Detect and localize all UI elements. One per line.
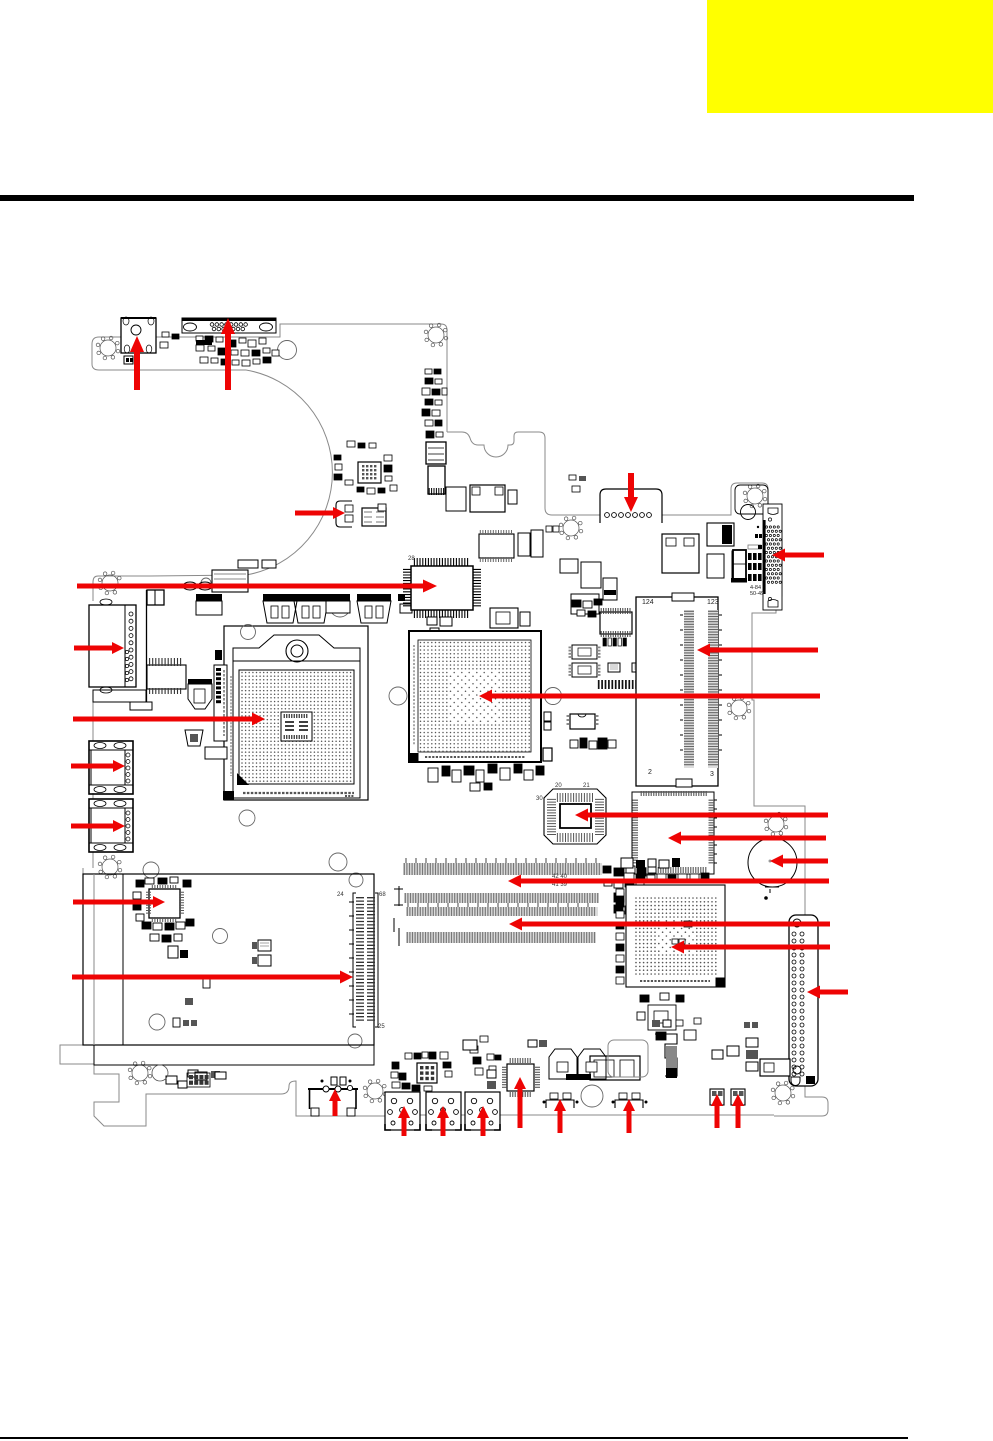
shield wall right of LAN xyxy=(146,590,148,702)
small parts upper right xyxy=(569,475,576,480)
CPU cavity bottom ticks xyxy=(284,735,307,739)
drill hole next to flower xyxy=(152,1065,168,1081)
CPU cavity mid marks xyxy=(285,722,308,730)
QFP left pins xyxy=(403,569,411,605)
right connector black mark xyxy=(806,1076,815,1084)
EC pins bottom xyxy=(643,867,706,873)
arrow to DIMM B xyxy=(509,918,830,931)
right edge connector outline xyxy=(789,915,818,1086)
arrow to dock connector xyxy=(697,644,818,657)
parts above rounded pad xyxy=(652,1020,660,1027)
arrow to mini-PCI connector xyxy=(72,971,353,984)
port pin holes xyxy=(210,323,214,327)
CPU socket outline xyxy=(224,626,368,800)
screw hole mid xyxy=(559,516,583,540)
component cluster below top port xyxy=(196,336,203,341)
docking connector body xyxy=(763,504,782,610)
cap below-left CPU xyxy=(205,747,227,759)
arrow to clock generator xyxy=(575,809,828,822)
battery tab xyxy=(765,887,779,893)
screw hole top-mid xyxy=(424,323,448,347)
mini-PCI pins right col xyxy=(367,898,375,1020)
arrow to right port xyxy=(772,549,824,562)
power mosfet 2 xyxy=(294,594,328,601)
parts right of DIMM slots xyxy=(614,868,624,876)
right connector top hole xyxy=(793,919,801,927)
comb connector body xyxy=(147,665,186,689)
chip bottom pins xyxy=(480,557,511,562)
QFP right pins xyxy=(473,569,481,605)
battery connector well xyxy=(600,489,662,523)
mini-PCI lower ledge xyxy=(94,1045,374,1065)
clock pins bottom xyxy=(557,833,592,842)
arrow to USB lower xyxy=(71,820,125,832)
clock pins top xyxy=(557,793,592,802)
mini-PCI connector rails xyxy=(353,893,378,1027)
mini-PCI pins left col xyxy=(356,898,364,1020)
connector small left xyxy=(336,501,352,527)
footer rule xyxy=(0,1437,908,1439)
arrow to WLAN chip xyxy=(73,896,165,908)
DIMM A top ticks xyxy=(406,858,596,863)
board outline circular cutout xyxy=(93,370,332,601)
SOIC chip 2 xyxy=(572,663,597,677)
parts above audio jack xyxy=(331,1077,337,1085)
arrow to USB upper xyxy=(71,760,125,772)
svg-text:24: 24 xyxy=(337,892,344,898)
clock generator chip xyxy=(544,789,606,844)
board outline right edge xyxy=(752,530,805,915)
CPU corner black mark xyxy=(223,791,234,800)
clock gen inner xyxy=(560,804,591,828)
SOIC chip 1 xyxy=(572,645,597,659)
drill hole above CPU xyxy=(241,625,256,640)
small parts near right connector xyxy=(676,1020,683,1026)
part right of power row xyxy=(398,594,405,601)
docking connector black bar xyxy=(763,520,766,594)
screw hole top-left xyxy=(96,336,120,360)
screw hole bottom right xyxy=(771,1081,795,1105)
yellow header highlight block xyxy=(707,0,993,113)
chip right of connector xyxy=(362,508,386,526)
part left of CPU 1 xyxy=(188,679,212,684)
EC side stubs xyxy=(714,800,717,863)
WLAN pins bottom xyxy=(152,917,175,922)
connector CN bottom 1 xyxy=(546,1100,574,1108)
parts around WLAN chip xyxy=(136,880,144,887)
dock top tab xyxy=(672,593,694,601)
parts left of chip above DDR xyxy=(572,600,581,607)
power jack CN1 xyxy=(121,317,156,353)
codec pins top xyxy=(510,1058,530,1063)
dock bottom tab xyxy=(676,779,692,787)
arrow up CN bottom 2 xyxy=(623,1099,635,1133)
power part mid xyxy=(326,594,350,601)
components right-top area xyxy=(662,534,699,573)
docking bottom hole xyxy=(768,600,778,608)
hole xyxy=(213,929,228,944)
arrow up audio codec xyxy=(514,1077,526,1128)
screw hole bottom mid xyxy=(363,1079,387,1103)
chain bottom ticks xyxy=(429,488,443,495)
USB stack connector 1 xyxy=(385,1092,420,1130)
CPU pin1 triangle xyxy=(237,773,249,785)
small connector bottom right 1 xyxy=(710,1089,724,1105)
svg-text:2: 2 xyxy=(648,769,652,776)
parts below north bridge xyxy=(428,768,438,782)
DIMM slot B row1 xyxy=(404,893,599,903)
DIMM slot C xyxy=(406,932,596,943)
hole xyxy=(239,810,255,826)
svg-text:50-49: 50-49 xyxy=(750,591,764,597)
mini-PCI right marks xyxy=(394,889,403,932)
small connector bottom right 2 xyxy=(731,1089,745,1105)
DIMM slot B row2 xyxy=(406,907,598,916)
screw hole right mid xyxy=(764,812,788,836)
two small chips mid xyxy=(518,533,530,556)
comb connector bottom row xyxy=(150,688,181,694)
board outline bottom-left corner xyxy=(60,1045,386,1126)
CPU center cavity xyxy=(281,712,312,741)
codec pins right xyxy=(535,1067,540,1087)
part mini-PCI left xyxy=(203,978,210,988)
CPU bottom label text xyxy=(243,792,354,794)
svg-text:20: 20 xyxy=(555,783,562,789)
CPU cam circle outer xyxy=(286,640,308,662)
black bar between pads xyxy=(566,1074,591,1080)
power part left xyxy=(196,594,222,601)
dock pin column right xyxy=(708,610,718,768)
arrow up CN bottom 1 xyxy=(554,1099,566,1133)
USB stack connector 3 xyxy=(465,1092,500,1130)
board outline notch edge xyxy=(447,432,600,515)
pad shape 1 xyxy=(549,1049,577,1079)
arrow up bottom right 2 xyxy=(732,1094,744,1128)
mini-PCI slot outline xyxy=(83,874,374,1045)
svg-text:124: 124 xyxy=(642,599,654,606)
EC pins left xyxy=(633,800,639,863)
part left of CPU 2 xyxy=(185,730,203,746)
docking top hole xyxy=(768,508,778,515)
vertical strip pins xyxy=(216,668,221,671)
hole xyxy=(201,578,211,588)
hole xyxy=(330,597,350,617)
screw hole bottom-left xyxy=(128,1061,152,1085)
vertical strip connector xyxy=(214,665,227,741)
parts above codec xyxy=(528,1040,537,1047)
header block bottom-left xyxy=(189,1075,193,1079)
parts near codec xyxy=(487,1070,496,1078)
hole xyxy=(389,687,407,705)
mini-PCI side marks xyxy=(349,902,354,1014)
svg-text:25: 25 xyxy=(378,1024,385,1030)
arrow to CPU socket xyxy=(73,713,265,726)
gray part xyxy=(748,545,761,549)
arrow up USB 1 xyxy=(398,1106,410,1136)
svg-text:123: 123 xyxy=(707,599,719,606)
battery connector pins xyxy=(605,513,610,518)
CPU cam circle inner xyxy=(291,645,303,657)
arrow to RTC battery xyxy=(770,855,828,868)
QFP top pins xyxy=(414,558,467,566)
arrow up USB 2 xyxy=(437,1106,449,1136)
right port plate xyxy=(735,485,768,514)
hole xyxy=(545,688,562,705)
QFN bottom cluster xyxy=(417,1063,437,1083)
arrow to north bridge xyxy=(479,690,820,703)
part mini-PCI 2 xyxy=(185,998,193,1005)
left connector USB lower xyxy=(89,799,133,852)
chip top pins xyxy=(480,530,511,535)
south bridge balls xyxy=(635,897,716,975)
hole xyxy=(329,853,347,871)
two flat chips xyxy=(608,663,620,672)
component chain upper mid xyxy=(425,369,432,374)
connector CN bottom 2 xyxy=(615,1100,643,1108)
screw hole right port xyxy=(743,484,767,508)
EC chip body xyxy=(632,792,714,874)
parts at EC bottom-left xyxy=(621,858,633,868)
parts right of NB xyxy=(544,712,551,721)
black blocks below chip xyxy=(603,638,606,646)
arrow to power jack xyxy=(130,336,144,390)
chip body mid xyxy=(479,534,514,558)
north bridge balls xyxy=(420,642,530,752)
NB left labels xyxy=(413,645,415,745)
arrow to right edge connector xyxy=(807,986,848,999)
resistor pack comb xyxy=(599,680,664,689)
CPU pin grid dots xyxy=(241,672,351,782)
dock side marks left xyxy=(680,615,683,750)
screw hole right edge xyxy=(727,696,751,720)
SB bottom text xyxy=(640,980,710,982)
QFP clock chip body xyxy=(411,566,473,610)
WLAN pins left xyxy=(146,892,151,913)
top port connector xyxy=(182,318,276,333)
parts beside header xyxy=(166,1076,177,1084)
arrow to small connector xyxy=(295,507,345,519)
DIMM slot A xyxy=(403,863,602,875)
parts below mini-PCI left xyxy=(188,1070,198,1077)
right connector bottom hole xyxy=(793,1066,801,1074)
hole xyxy=(581,1085,603,1107)
audio jack connector xyxy=(308,1088,358,1090)
arrow to EC chip xyxy=(668,832,826,845)
hole xyxy=(348,1034,362,1048)
SOIC chip 3 xyxy=(570,714,595,729)
battery pin dot xyxy=(764,896,768,900)
dock side marks right xyxy=(719,615,722,750)
svg-text:30: 30 xyxy=(536,796,543,802)
codec pins left xyxy=(502,1067,507,1087)
RTC battery xyxy=(748,838,797,887)
parts below WLAN xyxy=(168,946,178,958)
board outline to right port xyxy=(662,483,768,515)
stepped part below SB right xyxy=(655,1034,677,1076)
header rule xyxy=(0,195,914,201)
QFN chip U30 xyxy=(358,462,381,483)
docking pin grid xyxy=(765,526,767,528)
arrow to top port xyxy=(221,318,235,390)
clock pins left xyxy=(547,799,556,834)
long arrow to clock QFP xyxy=(77,580,437,593)
audio codec chip xyxy=(507,1064,534,1091)
jack1 base xyxy=(93,690,146,702)
board outline bottom edge right xyxy=(386,1114,774,1116)
dock connector outline xyxy=(636,597,718,786)
chip bottom ticks xyxy=(601,631,630,637)
arrow up bottom right 1 xyxy=(711,1094,723,1128)
board outline top-left tab xyxy=(92,337,246,370)
arrow to battery connector xyxy=(624,473,638,512)
left connector USB upper xyxy=(89,741,133,794)
chip right of QFP xyxy=(490,608,518,628)
component cluster mid xyxy=(446,487,466,511)
arrow to LAN connector xyxy=(74,642,124,654)
DIMM B mid ticks xyxy=(408,903,588,907)
parts below EC chip xyxy=(624,873,634,882)
EC pins top xyxy=(641,791,706,796)
NB bottom text xyxy=(425,756,525,758)
power mosfet 3 xyxy=(357,594,391,601)
parts below mini-PCI mid xyxy=(195,1072,207,1080)
clock pins right xyxy=(595,799,604,834)
CPU socket inner frame with cam notch xyxy=(233,635,360,798)
comb connector top row xyxy=(150,658,181,666)
hole xyxy=(349,873,363,887)
EC pins right xyxy=(709,800,715,863)
CPU pin field frame xyxy=(239,670,354,784)
black column left of SB xyxy=(616,889,624,896)
CPU bottom label text2 xyxy=(345,795,354,797)
QFP bottom pins xyxy=(414,610,467,618)
strip top black mark xyxy=(215,650,222,660)
WLAN pins top xyxy=(152,885,175,890)
small part below jack xyxy=(124,356,133,364)
hole xyxy=(149,1014,165,1030)
board outline bottom-right corner xyxy=(774,1086,828,1116)
left connector LAN xyxy=(89,599,136,693)
parts below south bridge xyxy=(637,1012,645,1020)
right connector pin holes xyxy=(792,932,796,936)
battery center dot xyxy=(769,860,772,863)
chip above DDR xyxy=(600,612,632,634)
chip top ticks xyxy=(601,608,630,614)
DIMM left brackets xyxy=(394,886,399,946)
component left of docking xyxy=(733,550,746,579)
USB stack connector 2 xyxy=(426,1092,461,1130)
pad shape 2 xyxy=(578,1049,606,1079)
svg-text:21: 21 xyxy=(583,783,590,789)
arrow up audio jack xyxy=(329,1089,341,1116)
parts center mini-PCI xyxy=(258,940,271,951)
parts below QFP xyxy=(427,617,437,625)
parts around QFN xyxy=(334,455,341,460)
hole xyxy=(143,862,159,878)
dock pin column left xyxy=(684,610,694,768)
hole xyxy=(278,341,297,360)
mini-PCI left rail xyxy=(122,874,124,1045)
svg-text:3: 3 xyxy=(710,771,714,778)
north bridge pin1 mark xyxy=(409,753,419,762)
south bridge pin1 mark xyxy=(716,978,726,988)
small part above cluster xyxy=(755,534,758,538)
screw hole left mini-pci xyxy=(98,855,122,879)
screw hole left cutout tab xyxy=(98,571,122,595)
WLAN controller chip xyxy=(149,889,180,918)
rounded pad outline xyxy=(608,1040,648,1077)
parts bottom right cluster xyxy=(712,1050,723,1059)
module bottom mid-right xyxy=(590,1056,640,1080)
north bridge grid frame xyxy=(418,640,531,752)
svg-text:68: 68 xyxy=(379,892,386,898)
north bridge outline xyxy=(409,631,541,762)
south bridge outline xyxy=(626,885,725,987)
svg-text:28: 28 xyxy=(408,556,415,562)
mini-PCI inner rail xyxy=(93,874,95,1045)
component cluster above USB xyxy=(405,1053,412,1059)
black pin cluster xyxy=(748,553,752,560)
parts mini-PCI bottom xyxy=(173,1018,180,1027)
WLAN pins right xyxy=(179,892,184,913)
right port big hole xyxy=(741,505,756,520)
codec pins bottom xyxy=(510,1092,530,1097)
parts row above clock gen xyxy=(570,740,578,748)
board outline left edge segments xyxy=(83,702,93,1045)
board outline top-right vertical xyxy=(99,324,447,432)
arrow to DIMM A xyxy=(508,875,829,888)
CPU cavity top ticks xyxy=(284,714,307,718)
caps row above CPU xyxy=(183,582,197,590)
power mosfet 1 xyxy=(263,594,297,601)
arrow up USB 3 xyxy=(477,1106,489,1136)
arrow to south bridge xyxy=(671,941,830,954)
